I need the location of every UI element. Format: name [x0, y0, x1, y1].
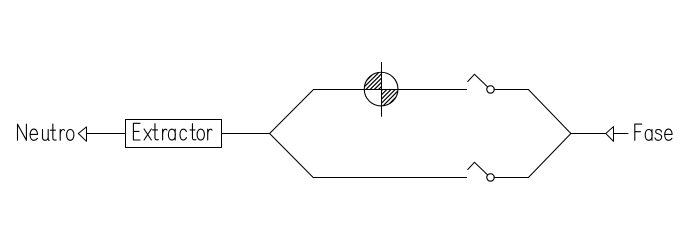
switch S1 (top) blade [468, 74, 488, 87]
wire: bottom branch horizontal [313, 177, 466, 179]
wire: left junction down-diagonal to bottom branch [270, 134, 314, 178]
wire: S2 to bottom-right bend [494, 177, 528, 179]
node label "Neutro" [18, 124, 74, 140]
label "Extractor" [133, 123, 212, 140]
wire: right junction to Fase arrow [571, 133, 606, 135]
terminal arrow (Fase, open triangle) [606, 127, 614, 142]
lamp L1 hatch, bottom-right quadrant [333, 72, 430, 106]
wire: top branch horizontal (through lamp) [314, 89, 467, 91]
switch S2 (bottom) blade [468, 162, 488, 175]
node label "Fase" [635, 124, 672, 140]
switch S1 terminal circle [487, 86, 495, 94]
wire: left junction up-diagonal to top branch [270, 90, 314, 134]
lamp L1 (circle with hatched quadrants) [364, 72, 398, 106]
wire: top-right diagonal to right junction [528, 90, 571, 134]
extractor block outline [126, 120, 222, 148]
wire: Extractor box to left junction [222, 133, 270, 135]
lamp L1 hatch, top-left quadrant [333, 72, 430, 106]
terminal arrow (Neutro, open triangle) [78, 127, 86, 141]
wire: Fase arrow stub [614, 133, 629, 135]
wire: bottom-right diagonal to right junction [528, 134, 571, 178]
wire: S1 to top-right bend [494, 89, 528, 91]
wire: Neutro arrow to Extractor box [87, 133, 126, 135]
lamp L1 vertical axis line [381, 62, 383, 116]
switch S2 terminal circle [487, 174, 495, 182]
